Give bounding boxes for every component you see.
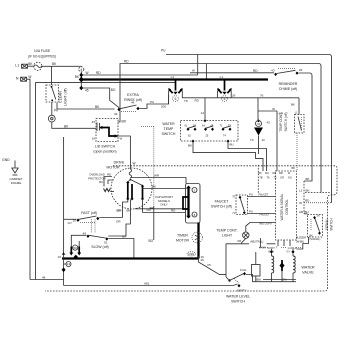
- svg-text:26: 26: [232, 93, 236, 97]
- dotted RD row: [299, 199, 331, 206]
- svg-text:BM: BM: [257, 278, 262, 282]
- water temp switch label: [162, 122, 176, 136]
- clean lamp: [48, 115, 55, 122]
- wire L1 main bus (thick): [75, 75, 268, 80]
- junction arrows to bus: [69, 247, 81, 260]
- cap bracket: [183, 197, 189, 209]
- svg-text:(NEUTRAL): (NEUTRAL): [250, 241, 264, 244]
- svg-text:W: W: [192, 69, 195, 73]
- terminal N: [16, 77, 27, 82]
- main winding: [126, 180, 134, 201]
- svg-text:45: 45: [85, 89, 89, 93]
- svg-text:SWITCH: SWITCH: [231, 300, 245, 304]
- svg-text:TB: TB: [259, 177, 263, 180]
- wire PU loop top: [161, 49, 332, 203]
- svg-text:SIGNAL: SIGNAL: [325, 218, 329, 230]
- wire BO chime line: [190, 69, 274, 73]
- svg-text:4: 4: [80, 68, 82, 72]
- wires right columns: [299, 181, 331, 214]
- svg-text:W: W: [299, 201, 302, 205]
- svg-text:T9: T9: [250, 138, 254, 142]
- wire under-bus thin line: [36, 81, 176, 83]
- cap module box: [186, 184, 201, 224]
- svg-text:BK: BK: [188, 144, 192, 148]
- label temp cont switch (upper right): [279, 112, 288, 131]
- lid switch: [92, 119, 123, 142]
- label cabinet frame: [9, 177, 22, 185]
- start winding: [130, 180, 144, 201]
- svg-text:76: 76: [260, 93, 264, 97]
- terminal 2: [192, 188, 197, 193]
- svg-text:BA: BA: [99, 180, 103, 184]
- overload protector label: [88, 173, 106, 181]
- svg-text:GY: GY: [287, 251, 291, 254]
- selector contact 3: [217, 75, 232, 101]
- svg-text:SWITCH: SWITCH: [162, 132, 176, 136]
- svg-text:SWITCH: SWITCH: [330, 218, 334, 231]
- svg-text:MOTOR: MOTOR: [176, 238, 189, 242]
- svg-text:(190): (190): [188, 253, 194, 256]
- svg-text:PU: PU: [150, 100, 154, 104]
- svg-text:OR: OR: [272, 172, 276, 175]
- wires valve bottoms: [263, 280, 296, 282]
- AB BU labels: [299, 210, 309, 214]
- svg-text:BK: BK: [258, 172, 262, 175]
- svg-text:PU: PU: [161, 49, 166, 53]
- wire clean to extra rinse: [57, 103, 115, 110]
- svg-text:13: 13: [67, 262, 71, 266]
- svg-text:1A: 1A: [317, 215, 320, 218]
- wire selector row: [182, 93, 299, 114]
- faucet switch label: [211, 200, 232, 209]
- timer motor label: [176, 233, 189, 242]
- svg-text:N: N: [16, 77, 19, 81]
- svg-text:CLEAN: CLEAN: [59, 91, 63, 103]
- wire fast left: [64, 218, 77, 220]
- wire watertemp BU exit: [228, 141, 267, 171]
- junction marks: [192, 79, 260, 143]
- terminal 50: [73, 245, 78, 250]
- svg-text:14: 14: [201, 111, 205, 115]
- ground: [2, 158, 18, 175]
- svg-text:PU: PU: [249, 209, 253, 213]
- svg-text:3: 3: [224, 97, 226, 101]
- valve coil cold: [287, 247, 296, 280]
- svg-text:45: 45: [92, 120, 96, 124]
- svg-text:DRIVE: DRIVE: [114, 161, 125, 165]
- wire lamp to lid switch: [52, 122, 96, 128]
- svg-text:BK: BK: [291, 103, 295, 107]
- svg-text:46: 46: [201, 258, 205, 262]
- svg-text:(open position): (open position): [93, 150, 116, 154]
- svg-text:FAUCET: FAUCET: [260, 214, 270, 217]
- svg-text:BK: BK: [306, 189, 310, 193]
- svg-text:GND: GND: [2, 158, 10, 162]
- svg-text:BK: BK: [127, 209, 131, 213]
- fuse F1: [34, 62, 42, 70]
- wire control box bottoms: [278, 240, 290, 246]
- wire BO branch: [81, 88, 119, 108]
- svg-text:TEMP: TEMP: [164, 127, 174, 131]
- svg-text:BU: BU: [230, 142, 234, 146]
- wire temp cont sw exit: [292, 133, 298, 171]
- wire slow left: [71, 235, 86, 246]
- svg-text:BU: BU: [265, 172, 269, 175]
- svg-text:OR: OR: [280, 177, 284, 180]
- thick bus bottom: [58, 255, 205, 259]
- buzzer box: [252, 252, 261, 282]
- selector contact 6: [168, 75, 183, 104]
- water temp switch box: [181, 121, 239, 142]
- svg-text:TEMP CONT.: TEMP CONT.: [216, 229, 237, 233]
- drive motor label: [107, 161, 125, 170]
- svg-text:FULL: FULL: [240, 268, 247, 272]
- wire W-RD upper line: [81, 71, 197, 75]
- fast switch: [68, 216, 100, 225]
- solenoid 34: [250, 98, 270, 154]
- svg-text:16: 16: [92, 137, 96, 141]
- label lid switch: [93, 145, 116, 154]
- svg-text:50: 50: [74, 246, 78, 250]
- water temp contacts 1: [185, 125, 197, 138]
- signal switch right: [307, 215, 322, 238]
- svg-text:BK: BK: [310, 234, 314, 237]
- svg-text:6: 6: [175, 97, 177, 101]
- svg-text:VALVE: VALVE: [302, 271, 314, 275]
- wire OR riser: [258, 103, 295, 172]
- valve coil hot: [267, 247, 275, 280]
- svg-text:LIGHT: LIGHT: [222, 234, 233, 238]
- svg-text:15: 15: [58, 255, 62, 259]
- svg-text:WATER LEVEL: WATER LEVEL: [226, 295, 250, 299]
- svg-text:BR: BR: [122, 120, 127, 124]
- wire chime to right column: [299, 73, 313, 181]
- linkage faucet: [257, 165, 259, 194]
- wire WR to cap: [130, 174, 186, 184]
- svg-text:L1: L1: [171, 75, 175, 79]
- dashed console bottom: [45, 166, 337, 291]
- extra rinse switch: [114, 101, 140, 116]
- svg-text:BR: BR: [292, 167, 296, 170]
- terminal 13: [64, 262, 71, 267]
- fast switch label: [81, 211, 97, 215]
- wire signal switch bottoms: [297, 234, 321, 249]
- timer 190 oval: [187, 252, 195, 256]
- terminal L1: [15, 64, 27, 69]
- svg-text:(SIGNAL): (SIGNAL): [310, 238, 321, 241]
- svg-text:L1: L1: [299, 189, 303, 193]
- wire timer to water level: [199, 256, 227, 275]
- temp cont light lamp: [237, 223, 275, 244]
- svg-text:43: 43: [267, 121, 271, 125]
- svg-text:BR: BR: [279, 172, 283, 175]
- water and signal control box: [276, 171, 297, 240]
- svg-text:43: 43: [114, 112, 118, 116]
- wire riser 14: [201, 64, 207, 121]
- temp cont switch contact: [295, 112, 305, 134]
- control box terminal names: [259, 194, 273, 226]
- thick timer riser: [197, 223, 199, 259]
- svg-text:W: W: [133, 162, 136, 166]
- slow switch label: [91, 245, 108, 249]
- svg-text:RD: RD: [253, 69, 258, 73]
- svg-text:W: W: [28, 75, 31, 79]
- tiny bottom terminal labels: [250, 236, 306, 253]
- svg-text:SWITCH (off): SWITCH (off): [284, 112, 288, 131]
- wire lid to motor: [118, 136, 136, 169]
- svg-text:V5: V5: [207, 263, 211, 267]
- svg-text:WATER: WATER: [162, 122, 175, 126]
- svg-text:34: 34: [257, 122, 261, 126]
- wire neutral run: [226, 244, 276, 277]
- cap module bar: [186, 186, 191, 219]
- svg-text:ONLY: ONLY: [160, 203, 168, 207]
- svg-text:BU/Y: BU/Y: [269, 251, 275, 254]
- svg-text:BUZZER: BUZZER: [296, 236, 306, 239]
- svg-text:48: 48: [42, 276, 46, 280]
- svg-text:WATER & SIGNAL: WATER & SIGNAL: [280, 193, 284, 220]
- svg-text:SLOW (off): SLOW (off): [91, 245, 108, 249]
- wire full contact to GM: [246, 275, 296, 282]
- water valve label: [301, 266, 315, 275]
- cap module label: [155, 195, 173, 207]
- wires right columns into valve: [259, 248, 302, 251]
- wire extra rinse to selector leg: [140, 95, 169, 109]
- temp cont light label: [216, 229, 237, 238]
- motor left wires: [99, 173, 113, 187]
- wire neutral riser: [35, 82, 37, 279]
- wire aux to cap module: [135, 208, 186, 210]
- wire L1 to fuse: [28, 62, 34, 66]
- wire watertemp BK exit: [188, 141, 263, 171]
- svg-text:A81: A81: [144, 281, 150, 285]
- wire BK to cap: [143, 185, 187, 189]
- svg-text:BK: BK: [306, 177, 310, 181]
- svg-text:26: 26: [299, 68, 303, 72]
- label signal switch: [325, 218, 334, 231]
- svg-text:WR: WR: [154, 174, 160, 178]
- svg-text:200: 200: [161, 105, 166, 109]
- svg-text:CONTROL: CONTROL: [285, 199, 289, 215]
- svg-text:PU: PU: [249, 193, 253, 197]
- svg-text:L1: L1: [15, 64, 19, 68]
- wire left vertical to bus: [62, 137, 66, 286]
- water level switch: [226, 268, 247, 292]
- reminder chime switch: [271, 68, 303, 76]
- wire lid riser BR to RD loop: [118, 60, 321, 193]
- wire RD to cap module: [143, 209, 186, 213]
- svg-text:12: 12: [262, 138, 266, 142]
- motor internal squiggle: [129, 169, 132, 180]
- svg-text:AB: AB: [299, 210, 303, 214]
- wire slow right: [108, 234, 134, 258]
- valve center junction: [279, 260, 284, 280]
- wires faucet to control: [248, 193, 276, 214]
- svg-text:FAUCET: FAUCET: [215, 200, 230, 204]
- clean light switch: [46, 66, 59, 102]
- junction diamonds on L1 node: [79, 73, 84, 90]
- svg-text:NG: NG: [288, 177, 292, 180]
- svg-text:REMINDER: REMINDER: [279, 82, 298, 86]
- water temp contacts 3: [220, 125, 232, 138]
- faucet switch: [232, 195, 247, 215]
- timer motor: [192, 232, 203, 243]
- svg-text:EMPTY: EMPTY: [237, 288, 247, 292]
- water temp contacts 2: [202, 125, 214, 138]
- svg-text:10A FUSE: 10A FUSE: [34, 49, 51, 53]
- wire fast right: [99, 209, 122, 224]
- control box header labels: [258, 172, 292, 180]
- overload protector: [104, 189, 115, 192]
- svg-text:TIMER: TIMER: [177, 233, 188, 237]
- label water level switch: [226, 295, 250, 304]
- svg-text:RD: RD: [96, 71, 101, 75]
- svg-text:RD: RD: [107, 173, 111, 177]
- svg-text:BO: BO: [149, 239, 154, 243]
- wire mid riser RD: [141, 127, 154, 244]
- wire fuse to node 4: [42, 62, 79, 66]
- drive motor circle: [111, 168, 152, 209]
- svg-text:W: W: [120, 137, 123, 141]
- svg-text:GY: GY: [68, 221, 72, 225]
- svg-text:WATER: WATER: [301, 266, 315, 270]
- svg-text:1-COLD: 1-COLD: [287, 247, 296, 250]
- svg-text:43: 43: [271, 69, 275, 73]
- svg-text:BU: BU: [305, 210, 309, 214]
- label clean light: [59, 88, 68, 105]
- wire long bottom: [64, 281, 238, 285]
- svg-text:FAST (off): FAST (off): [81, 211, 97, 215]
- wire N lead: [27, 75, 32, 280]
- svg-text:LIGHT (off): LIGHT (off): [64, 88, 68, 105]
- svg-text:PROTECTOR: PROTECTOR: [88, 176, 106, 180]
- svg-text:(W-BK): (W-BK): [296, 240, 304, 243]
- svg-text:EXTRA: EXTRA: [127, 93, 139, 97]
- svg-text:(IF SO-EQUIPPED): (IF SO-EQUIPPED): [28, 55, 56, 59]
- linkage fast-slow: [92, 220, 95, 234]
- svg-text:SWITCH (off): SWITCH (off): [211, 205, 232, 209]
- svg-text:W: W: [86, 71, 89, 75]
- svg-text:FRAME: FRAME: [11, 181, 22, 185]
- wire bottom neutral run: [30, 276, 64, 280]
- wire switch to lamp: [52, 102, 59, 115]
- svg-text:TEMP CONT.: TEMP CONT.: [279, 112, 283, 131]
- svg-text:BO: BO: [111, 88, 116, 92]
- svg-text:52: 52: [104, 241, 108, 245]
- label extra rinse: [124, 93, 142, 102]
- wire node4 drop: [80, 72, 82, 88]
- svg-text:LID SWITCH: LID SWITCH: [95, 145, 116, 149]
- svg-text:W8: W8: [237, 240, 241, 243]
- slow switch: [83, 232, 109, 245]
- svg-text:BK: BK: [152, 185, 156, 189]
- label reminder chime: [279, 82, 298, 91]
- label 10A FUSE: [28, 49, 56, 59]
- svg-text:L1: L1: [220, 75, 224, 79]
- terminal 8: [192, 212, 197, 217]
- motor bottom wires: [108, 200, 151, 237]
- svg-text:W: W: [272, 107, 275, 111]
- svg-text:RD: RD: [124, 60, 129, 64]
- svg-text:CHIME (off): CHIME (off): [279, 87, 297, 91]
- node 4: [79, 66, 84, 72]
- svg-text:44: 44: [131, 101, 135, 105]
- svg-text:T8: T8: [184, 99, 188, 103]
- svg-text:BK: BK: [122, 234, 126, 238]
